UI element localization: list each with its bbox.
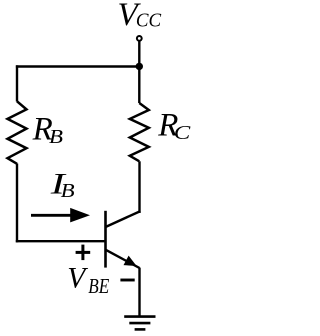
ground bbox=[124, 317, 155, 330]
wire bbox=[138, 268, 140, 317]
wire bbox=[138, 161, 140, 213]
label + bbox=[76, 245, 91, 261]
power terminal VCC bbox=[137, 36, 142, 41]
resistor RB bbox=[8, 101, 27, 164]
wire bbox=[16, 65, 18, 101]
label IB bbox=[49, 169, 75, 203]
resistor RC bbox=[130, 103, 149, 161]
label RC bbox=[157, 108, 191, 145]
wire bbox=[16, 164, 18, 243]
label minus bbox=[120, 279, 134, 282]
transistor Q1 bbox=[106, 211, 141, 268]
svg-text:B: B bbox=[49, 126, 64, 148]
svg-text:V: V bbox=[67, 263, 88, 295]
wire bbox=[138, 41, 140, 67]
label RB bbox=[32, 112, 64, 148]
wire bbox=[138, 67, 140, 104]
svg-text:BE: BE bbox=[88, 274, 109, 298]
current arrow IB bbox=[31, 208, 90, 223]
wire bbox=[16, 65, 139, 67]
wire bbox=[16, 240, 106, 242]
svg-text:CC: CC bbox=[136, 10, 162, 32]
label VCC bbox=[118, 0, 162, 33]
svg-text:C: C bbox=[174, 122, 191, 144]
svg-text:B: B bbox=[61, 180, 76, 202]
label VBE bbox=[67, 263, 109, 299]
junction node bbox=[136, 63, 143, 70]
